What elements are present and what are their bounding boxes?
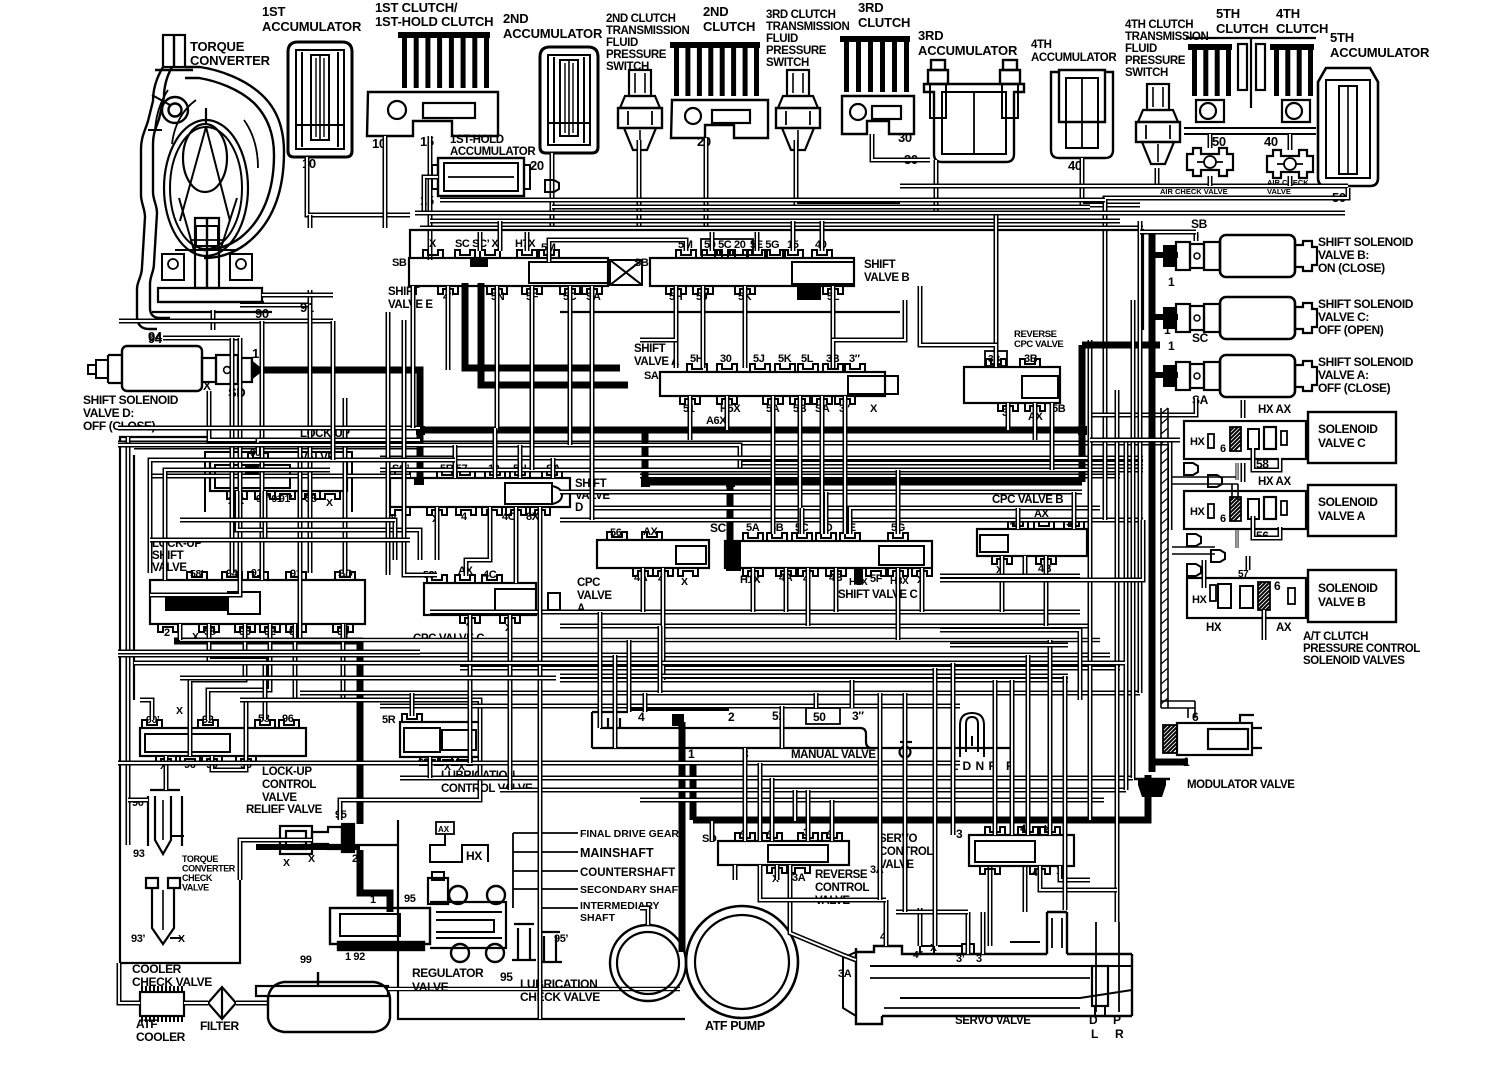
svg-text:30: 30 [720,353,732,365]
wire servo region v3 [1010,680,1015,835]
thick sub bus [645,479,1082,486]
svg-text:CHECK: CHECK [182,873,213,883]
wire 50 drop [1208,176,1213,186]
wire timing-90 [258,440,420,454]
svg-text:3A: 3A [792,872,806,884]
wire mid h5 [560,490,1082,495]
wire strainer-pump [388,987,680,992]
svg-text:SHIFT SOLENOID: SHIFT SOLENOID [1318,235,1414,249]
wire v CH3X [896,568,901,640]
wire left long [126,437,131,845]
svg-text:4C: 4C [483,569,497,581]
air check valve right [1267,150,1313,178]
svg-text:3: 3 [976,953,982,965]
wire right 645 [950,643,1068,648]
thick solA stub [1152,372,1178,378]
2nd clutch pressure switch [629,70,651,96]
thick solenoid right vert [1149,232,1156,772]
wire rev region v3 [806,790,811,821]
wire lockup 93 [246,624,295,756]
wire B下 5H [640,313,676,340]
svg-text:PRESSURE: PRESSURE [606,49,667,61]
solenoid valve C box [1308,412,1396,463]
svg-text:CPC VALVE B: CPC VALVE B [992,494,1063,506]
wire cpcB v2 [1072,492,1077,529]
wire E SB drop [411,286,416,428]
air check valve left [1187,148,1233,176]
wire v ASA [820,396,825,534]
wire cpcB down x [1025,556,1100,580]
CPC valve B [977,529,1087,556]
check c4 [1211,550,1225,562]
svg-text:50: 50 [1212,134,1226,149]
manual valve thick bar [629,705,729,711]
servo DL PR lines [1095,922,1097,1012]
svg-text:SERVO VALVE: SERVO VALVE [955,1015,1031,1027]
shift valve D [390,478,570,507]
svg-text:REVERSE: REVERSE [815,869,868,881]
svg-text:VALVE B:: VALVE B: [1318,248,1369,262]
wire 91 [240,290,310,305]
svg-text:2ND: 2ND [703,4,728,19]
wire manual v51 [780,706,785,748]
svg-text:PRESSURE CONTROL: PRESSURE CONTROL [1303,643,1420,655]
torque converter inner detail [148,70,242,250]
svg-text:SA: SA [644,370,659,382]
torque converter check valve [148,790,184,854]
wire 1st clutch 10 down [383,136,388,228]
valve B 50 5C 20 box [701,239,753,255]
svg-text:SOLENOID: SOLENOID [1318,422,1378,436]
wire v A5A [771,396,776,534]
modulator valve [1135,715,1262,755]
svg-text:REGULATOR: REGULATOR [412,966,484,980]
wire servo v11 [993,680,998,821]
wire sol56 [1253,516,1280,538]
wire cpcA 4 [661,568,666,680]
modulator drain block [1138,779,1166,797]
wire v 5J [701,286,706,368]
wire cooler-filter [184,1001,208,1006]
svg-text:95: 95 [404,893,416,905]
lock-up shift valve [150,580,365,624]
svg-text:FILTER: FILTER [200,1019,239,1033]
wire rev region v2 [770,778,775,821]
wire servo region v1 [903,693,908,912]
wire B下 5J [701,313,706,345]
wire servo region v5 [1048,640,1053,821]
wire 4th acc 40 down [1082,158,1140,205]
svg-text:SHIFT: SHIFT [152,550,184,562]
wire right h576 [940,574,1080,579]
wire servoctl 4pp [1040,866,1117,890]
wire mid low3 [180,638,1100,643]
shift valve A [660,372,885,396]
wire valveB 5K [743,313,748,352]
wire sol A vert pair [1241,400,1246,418]
thick line E-1 [465,283,620,368]
shaft leader lines [513,832,578,834]
svg-text:FLUID: FLUID [606,37,638,49]
wire v 5M link [549,240,686,262]
svg-text:MODULATOR VALVE: MODULATOR VALVE [1187,779,1295,791]
reverse cpc 3B box [985,351,1007,366]
svg-text:3’: 3’ [956,953,965,965]
svg-text:3: 3 [956,827,963,841]
svg-text:3″: 3″ [852,709,864,723]
svg-text:1: 1 [1168,275,1175,289]
wire low band1 [118,761,960,766]
wire mid h low left [134,661,1125,666]
svg-text:SB: SB [634,257,649,269]
wire lockup 95 [343,624,480,757]
lock-up timing valve [210,461,347,491]
servo valve inner lines [870,977,1090,979]
svg-text:3″: 3″ [849,353,861,365]
svg-text:1ST-HOLD: 1ST-HOLD [450,134,504,146]
svg-text:CHECK VALVE: CHECK VALVE [132,975,212,989]
svg-text:1ST CLUTCH/: 1ST CLUTCH/ [375,0,458,15]
AX HX bracket [436,822,454,834]
svg-text:VALVE A: VALVE A [634,356,679,368]
svg-text:95: 95 [500,970,513,984]
wire mid low1 [430,610,1080,615]
wire top v 500 [498,221,503,251]
svg-text:ACCUMULATOR: ACCUMULATOR [262,19,362,34]
wire sol57 [1246,556,1251,570]
svg-text:94: 94 [148,329,163,344]
wire left down1 [178,624,183,640]
svg-text:A6X: A6X [706,415,727,427]
svg-text:4TH CLUTCH: 4TH CLUTCH [1125,19,1193,31]
svg-text:SWITCH: SWITCH [766,57,809,69]
svg-text:SHIFT SOLENOID: SHIFT SOLENOID [1318,355,1414,369]
wire mid low5 [460,666,1120,671]
wire cpcC right [508,615,513,790]
wire timing bottom 1 [237,491,420,560]
thick modulator link [1152,759,1188,766]
wire 4th sw down [1155,168,1160,186]
wire mid low2 [560,624,1090,629]
wire top drop 310b [331,321,336,460]
torque converter extra detail [155,90,258,240]
wire valveD5N up [230,458,455,463]
svg-text:6: 6 [1220,443,1226,455]
wire v revcpc 3B [920,286,996,367]
4th accumulator [1051,70,1113,158]
svg-text:5F: 5F [870,573,883,585]
wire rv5 [1131,300,1136,778]
3rd clutch pressure switch [787,70,809,96]
wire ctrl90p [140,700,152,720]
svg-text:5A: 5A [746,522,760,534]
wire servo ctl verts [993,821,998,835]
wire h 520 left [180,518,395,523]
thick servo bus [693,775,1148,820]
wire 94 [163,336,240,341]
wire rev down X [775,865,780,880]
2nd clutch body [671,100,768,138]
shift valve C [725,541,932,568]
wire v 5K [743,286,748,368]
wire vD 5R57 [453,445,458,478]
wire right 630 [940,630,1080,700]
wire v D4 [466,507,490,576]
wire servo body verts [884,900,889,946]
svg-text:TRANSMISSION: TRANSMISSION [606,25,689,37]
bottom enclosure top [300,844,398,846]
wire servo v8 [793,790,798,821]
wire valveE down1 [386,312,391,575]
wire rv4 [1124,440,1129,790]
svg-text:VALVE: VALVE [262,792,297,804]
svg-text:X: X [308,853,315,865]
thick relief feed [256,844,360,850]
wire solB six [1262,610,1267,640]
wire 2nd sw down [637,140,642,228]
wire rev region v4 [830,800,835,821]
wire v H5X [725,396,730,430]
svg-text:4″: 4″ [913,950,923,961]
svg-text:CPC: CPC [577,577,600,589]
servo valve left wedge [843,952,856,1016]
wire mid low4 [118,653,1110,658]
svg-text:30: 30 [898,130,912,145]
svg-text:HX: HX [1206,622,1222,634]
wire solC down [1236,463,1239,480]
wire left pair B [165,470,330,580]
1st accumulator [288,42,352,157]
svg-text:ACCUMULATOR: ACCUMULATOR [1330,45,1430,60]
wire mid v 615 [613,655,618,748]
svg-text:COUNTERSHAFT: COUNTERSHAFT [580,867,675,879]
wire rv6 [1138,221,1143,693]
svg-text:X: X [283,857,290,869]
svg-text:ACCUMULATOR: ACCUMULATOR [503,26,603,41]
svg-text:VALVE: VALVE [577,590,612,602]
wire v revcpc 3p [1006,403,1011,430]
wire v D8X [538,507,543,1019]
wire revcpc 3B up [994,213,999,367]
shift valve E [409,258,608,286]
filter [208,987,236,1019]
svg-text:P: P [1113,1013,1121,1027]
svg-text:SC: SC [710,521,727,535]
svg-text:2: 2 [728,710,735,724]
junction dot [1078,426,1087,435]
svg-text:CLUTCH: CLUTCH [858,15,910,30]
wire v 5H [674,286,679,368]
wire servo 4p [760,865,886,900]
svg-text:CLUTCH: CLUTCH [703,19,755,34]
svg-text:FINAL DRIVE GEAR: FINAL DRIVE GEAR [580,828,679,840]
manual valve black dot [672,714,684,726]
wire cpcB 4B [1044,556,1049,626]
svg-text:X: X [429,238,437,250]
svg-text:SECONDARY SHAFT: SECONDARY SHAFT [580,884,685,896]
left enclosure box [120,437,240,963]
svg-text:91’: 91’ [279,493,293,505]
wire v B5E [755,232,760,251]
wire 40 drop [1288,176,1293,186]
svg-text:VALVE B: VALVE B [1318,595,1366,609]
svg-text:HX AX: HX AX [1258,476,1291,488]
wire v D4C [514,507,519,583]
svg-text:CONTROL: CONTROL [262,779,316,791]
wire solA down [1236,530,1239,548]
svg-text:4TH: 4TH [1276,6,1300,21]
check 2nd acc [545,180,559,192]
1st clutch pack [398,32,490,38]
wire valveE down2 [404,320,437,575]
thick servo bus up [690,765,697,820]
wire v C5E [850,508,862,534]
wire 2nd acc 20 down [550,153,555,230]
wire torque converter down [211,310,216,330]
wire ctrl-tcc [164,756,169,790]
wire servo 3A [790,865,856,960]
wire h 540 left [150,538,410,543]
wire 2 to cooler [240,840,312,880]
4th clutch pack [1270,44,1314,50]
svg-text:TORQUE: TORQUE [190,39,245,54]
svg-text:3A: 3A [838,968,852,980]
shift solenoid valve B [1220,235,1295,277]
svg-text:1 92: 1 92 [345,951,365,963]
manual valve body [592,712,1012,758]
svg-text:PRESSURE: PRESSURE [766,45,827,57]
svg-text:PRESSURE: PRESSURE [1125,55,1186,67]
svg-text:1: 1 [1164,323,1171,337]
wire timing bottom 2 [265,491,410,540]
wire 1st clutch 15 down [428,136,433,260]
wire cooler line [119,963,140,1003]
wire 1st-hold acc 15 down [424,177,438,213]
wire 90 under torque converter [119,319,333,324]
svg-text:SHIFT: SHIFT [634,343,666,355]
svg-text:3B: 3B [1024,353,1038,365]
wire manual v4 [643,693,648,712]
svg-text:ACCUMULATOR: ACCUMULATOR [1031,52,1117,64]
wire left h475 [150,474,410,479]
svg-text:A6X: A6X [799,289,817,299]
wire rev region v1 [743,763,748,821]
wire 5th acc 50 down [1105,188,1348,440]
left enclosure box 2 [133,455,135,700]
thick line E-2 [481,283,628,385]
wire tc foot [262,293,333,298]
svg-text:VALVE: VALVE [879,859,914,871]
thick link [642,430,649,482]
svg-text:MANUAL VALVE: MANUAL VALVE [791,749,876,761]
wire v 5F [530,286,535,470]
wire v B40 [820,221,825,251]
svg-text:CPC VALVE: CPC VALVE [1014,339,1063,350]
svg-text:4: 4 [638,710,645,724]
wire lockup 96 [190,624,245,756]
shift valve E end cap [610,260,642,285]
solenoid valve B box [1308,570,1396,622]
svg-text:OFF (OPEN): OFF (OPEN) [1318,323,1384,337]
wire rv2 [1103,440,1108,520]
svg-text:CLUTCH: CLUTCH [1276,21,1328,36]
svg-text:RELIEF VALVE: RELIEF VALVE [246,804,323,816]
svg-text:5TH: 5TH [1216,6,1240,21]
shift valve D junction [414,477,424,485]
svg-text:SOLENOID: SOLENOID [1318,581,1378,595]
wire SB head [1194,232,1199,241]
CPC valve C [424,583,536,615]
svg-text:CONTROL: CONTROL [815,882,869,894]
wire mid low6 [560,678,1068,683]
wire mid low7 [300,691,1140,696]
wire v B15 [791,221,796,251]
svg-text:TRANSMISSION: TRANSMISSION [766,21,849,33]
wire rv3 [1115,390,1120,922]
wire v SA [590,286,595,520]
2nd clutch pack [670,42,760,48]
svg-text:SD: SD [702,833,717,845]
wire rv1b [1088,340,1093,390]
wire cpcB x [1000,556,1005,612]
wire timing 58 [310,491,395,560]
wire 91 drop [308,305,313,573]
wire sol58 [1253,448,1280,470]
wire 94 drop [230,338,235,573]
wire relief95 [340,757,480,820]
wire lockup 58 down [209,624,265,720]
svg-text:VALVE B: VALVE B [864,272,909,284]
svg-text:X: X [870,403,878,415]
wire v 5N [495,286,500,430]
1st clutch body [367,92,498,136]
thick SC-1 link [1082,342,1160,349]
svg-text:VALVE: VALVE [412,980,449,994]
bottom enclosure box [398,820,685,1019]
reverse control valve [718,841,849,865]
3rd accumulator [924,60,1024,162]
wire left pair A [150,460,310,573]
wire low band2 [400,776,1133,781]
wire servo region v2 [933,668,938,946]
wire left h447 [134,445,420,450]
svg-text:SHIFT VALVE C: SHIFT VALVE C [838,589,917,601]
wire mid h2 [118,445,740,470]
5th/4th clutch body [1184,38,1316,134]
wire v H7X [525,232,530,251]
svg-text:LUBRICATION: LUBRICATION [520,977,597,991]
svg-text:VALVE A: VALVE A [1318,509,1366,523]
wire E 4pp drop [446,286,451,370]
valve B A6X dark [797,287,821,300]
svg-text:5TH: 5TH [1330,30,1354,45]
torque converter [137,35,284,329]
svg-text:FLUID: FLUID [766,33,798,45]
svg-text:5R: 5R [382,714,396,726]
svg-text:SC SC’ X: SC SC’ X [455,238,499,250]
wire band 678 left [180,676,556,681]
svg-text:SHIFT SOLENOID: SHIFT SOLENOID [83,393,179,407]
svg-text:CLUTCH: CLUTCH [1216,21,1268,36]
svg-text:FLUID: FLUID [1125,43,1157,55]
wire 1st acc down [307,157,410,215]
svg-text:SOLENOID VALVES: SOLENOID VALVES [1303,655,1405,667]
svg-text:SB: SB [1191,217,1208,231]
wire 3rd sw down [796,140,900,205]
wire servo region v4 [1026,655,1031,821]
wire v C5D [824,492,829,534]
wire sol hatch h1 [1172,477,1238,554]
